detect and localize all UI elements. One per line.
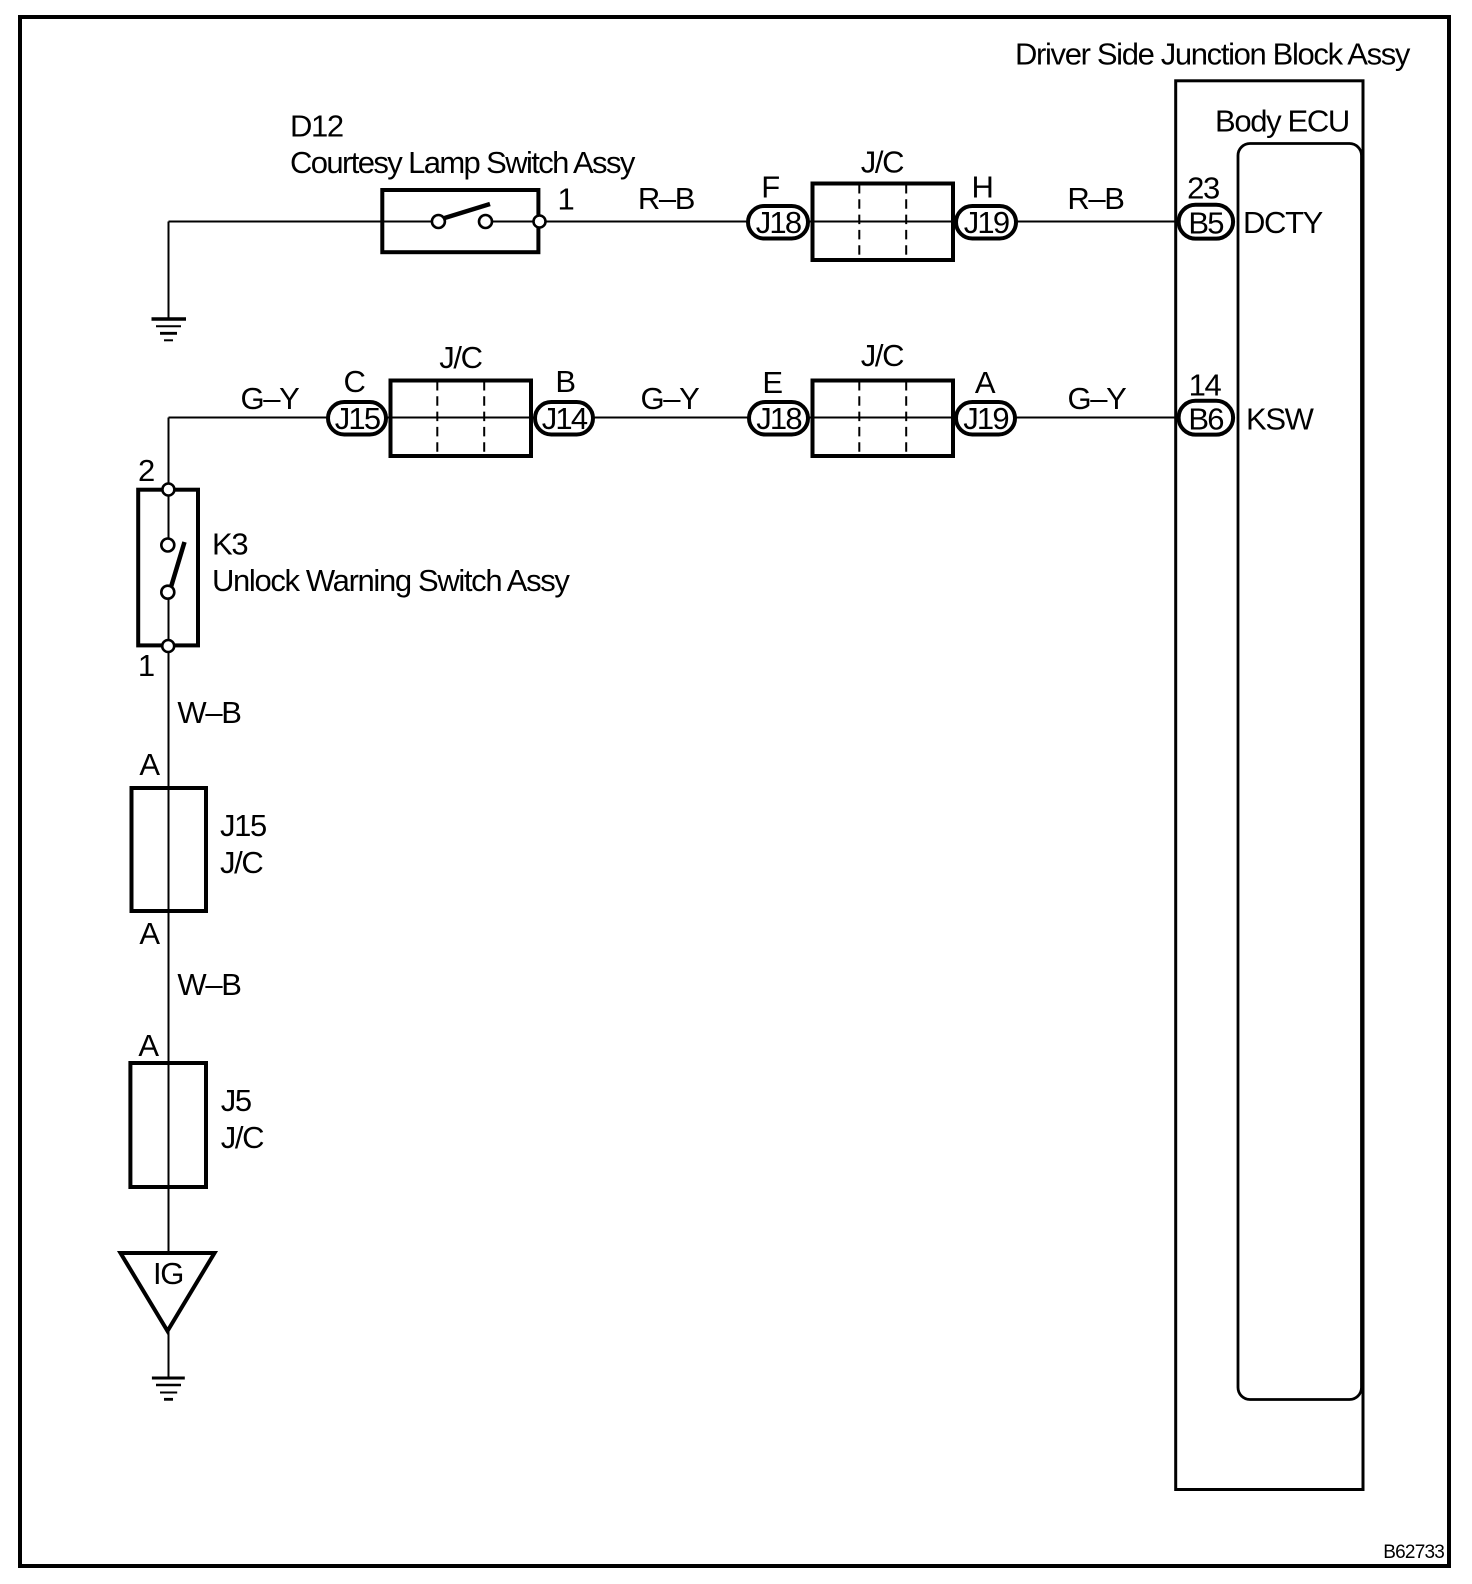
J/C row1 dashed line 2 xyxy=(905,184,907,260)
ground G1 (courtesy lamp switch ground) xyxy=(152,319,187,340)
J/C box row2 right xyxy=(813,381,954,457)
svg-text:Body ECU: Body ECU xyxy=(1215,104,1349,139)
svg-text:C: C xyxy=(343,364,365,399)
svg-text:14: 14 xyxy=(1189,368,1222,403)
svg-text:H: H xyxy=(971,170,992,205)
svg-text:J15: J15 xyxy=(335,401,380,436)
svg-text:J18: J18 xyxy=(756,205,801,240)
K3 lower contact xyxy=(161,586,174,599)
D12 pin 1 circle xyxy=(534,216,546,228)
svg-text:J5: J5 xyxy=(221,1083,251,1118)
svg-text:KSW: KSW xyxy=(1246,402,1315,437)
svg-text:IG: IG xyxy=(153,1256,183,1291)
svg-text:R–B: R–B xyxy=(1067,181,1124,216)
svg-text:J/C: J/C xyxy=(861,145,904,180)
svg-text:F: F xyxy=(761,170,779,205)
svg-text:D12: D12 xyxy=(290,109,343,144)
svg-text:A: A xyxy=(138,1028,159,1063)
K3 bottom pin circle xyxy=(162,640,174,652)
svg-text:J18: J18 xyxy=(756,401,801,436)
connector oval B5 xyxy=(1179,205,1234,239)
svg-text:1: 1 xyxy=(138,648,154,683)
svg-text:1: 1 xyxy=(558,182,574,217)
wire K3 lower contact down through J15 and J5 to IG xyxy=(168,592,170,1253)
connector oval J19 row1 xyxy=(956,206,1016,239)
junction connector J15 box xyxy=(132,788,207,911)
wire row1 vertical drop to ground xyxy=(168,222,170,319)
svg-text:J15: J15 xyxy=(220,808,266,843)
wire row2 horizontal (left riser to B6) xyxy=(169,417,1177,419)
svg-text:A: A xyxy=(139,916,160,951)
svg-text:J14: J14 xyxy=(542,401,588,436)
K3 switch blade xyxy=(171,542,185,587)
J/C row2 left dashed line 1 xyxy=(436,381,438,456)
junction connector J5 box xyxy=(130,1063,206,1187)
svg-text:K3: K3 xyxy=(212,527,247,562)
K3 top pin circle xyxy=(162,484,174,496)
J/C row2 right dashed line 1 xyxy=(858,381,860,456)
connector oval J14 xyxy=(535,402,593,435)
svg-text:Unlock Warning Switch Assy: Unlock Warning Switch Assy xyxy=(212,563,570,598)
wire row2 vertical to K3 upper contact xyxy=(168,418,170,546)
ground G2 (IG ground) xyxy=(152,1378,185,1399)
J/C row2 left dashed line 2 xyxy=(483,381,485,456)
Driver Side Junction Block Assy outer box xyxy=(1176,81,1363,1490)
J/C box row2 left xyxy=(391,381,532,457)
J/C row2 right dashed line 2 xyxy=(905,381,907,456)
svg-text:G–Y: G–Y xyxy=(641,381,700,416)
svg-text:G–Y: G–Y xyxy=(1068,381,1127,416)
svg-text:J/C: J/C xyxy=(861,338,904,373)
svg-text:B62733: B62733 xyxy=(1383,1542,1444,1563)
svg-text:W–B: W–B xyxy=(177,695,241,730)
D12 switch blade xyxy=(443,204,490,219)
svg-text:A: A xyxy=(975,365,996,400)
svg-text:J/C: J/C xyxy=(221,1120,264,1155)
svg-text:J/C: J/C xyxy=(439,340,482,375)
D12 switch right contact xyxy=(479,215,492,228)
IG power triangle xyxy=(121,1253,215,1331)
connector oval J18 row2 xyxy=(749,402,808,435)
connector oval J19 row2 xyxy=(956,402,1015,435)
svg-text:B6: B6 xyxy=(1188,402,1223,437)
svg-text:B5: B5 xyxy=(1188,206,1223,241)
svg-text:B: B xyxy=(555,364,575,399)
svg-text:J/C: J/C xyxy=(220,845,263,880)
svg-text:Driver Side Junction Block Ass: Driver Side Junction Block Assy xyxy=(1015,37,1411,72)
Body ECU rounded box xyxy=(1238,144,1362,1400)
svg-text:DCTY: DCTY xyxy=(1243,205,1323,240)
wire row1 horizontal right segment (switch to B5) xyxy=(486,221,1177,223)
unlock warning switch K3 box xyxy=(138,490,198,646)
J/C row1 dashed line 1 xyxy=(858,184,860,260)
svg-text:R–B: R–B xyxy=(638,181,695,216)
J/C box row1 xyxy=(813,184,954,261)
D12 switch left contact xyxy=(432,215,445,228)
svg-text:2: 2 xyxy=(138,453,154,488)
svg-text:A: A xyxy=(139,747,160,782)
svg-text:Courtesy Lamp Switch Assy: Courtesy Lamp Switch Assy xyxy=(290,145,636,180)
svg-text:W–B: W–B xyxy=(177,967,241,1002)
courtesy lamp switch D12 box xyxy=(382,190,538,252)
connector oval J15 xyxy=(328,402,386,435)
wire row1 horizontal left segment (ground to switch contact) xyxy=(169,221,439,223)
svg-text:G–Y: G–Y xyxy=(241,381,300,416)
K3 upper contact xyxy=(161,539,174,552)
connector oval J18 row1 xyxy=(748,206,808,239)
wire IG to ground xyxy=(168,1331,170,1377)
connector oval B6 xyxy=(1179,401,1234,435)
svg-text:23: 23 xyxy=(1187,171,1219,206)
svg-text:J19: J19 xyxy=(963,401,1008,436)
svg-text:E: E xyxy=(762,365,782,400)
svg-text:J19: J19 xyxy=(964,205,1009,240)
